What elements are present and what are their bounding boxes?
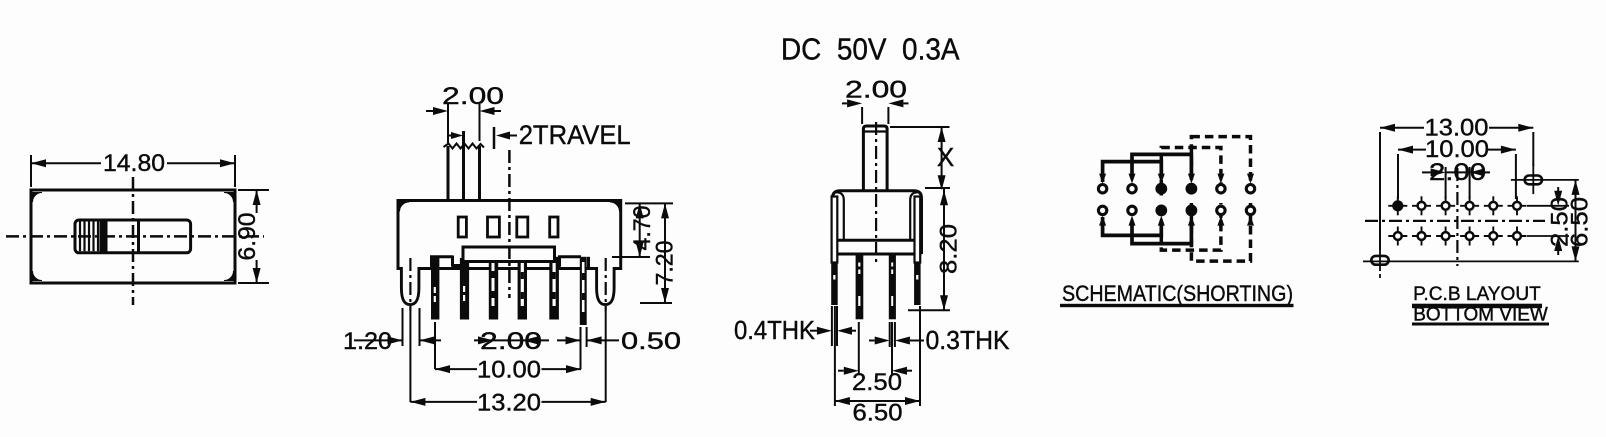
svg-text:2TRAVEL: 2TRAVEL [519, 120, 631, 150]
dimension 4.70 line and arrows [639, 203, 641, 257]
view3 pin outer-right [914, 262, 921, 305]
view2 pin 1 [431, 257, 439, 320]
svg-text:0.3THK: 0.3THK [926, 327, 1010, 355]
schematic pin circle bottom row col6 [1246, 206, 1254, 214]
pcb slot hole bottom-left [1371, 256, 1388, 265]
schematic pin circle bottom row col1 [1098, 206, 1106, 214]
view2 contact window 1 [458, 217, 466, 237]
view2 mounting post left [401, 267, 419, 305]
schematic pin circle top row col1 [1098, 185, 1106, 193]
dimension 2.00 pcb extension lines [1445, 167, 1447, 199]
view2 body outline [398, 201, 621, 269]
dimension 0.3THK arrows [869, 340, 875, 342]
pcb pad row2 col4 [1460, 235, 1479, 237]
view3 vertical centerline [875, 122, 877, 262]
view2 contact window 3 [517, 217, 528, 237]
pcb caption underline2 [1412, 323, 1549, 326]
schematic pin circle bottom row col2 [1128, 206, 1136, 214]
dimension 2.50 side arrows [838, 370, 844, 372]
view2 pin 5 [549, 257, 559, 320]
view3 metal tab right upper [915, 197, 921, 263]
pcb bottom extension line long [1363, 260, 1579, 262]
view2 slider base plate [463, 247, 555, 262]
svg-text:2.00: 2.00 [480, 328, 542, 355]
dimension 0.4THK arrows [810, 330, 817, 332]
svg-text:0.4THK: 0.4THK [734, 317, 815, 345]
view1 corner mark top-left [33, 193, 43, 203]
pcb pad row2 col5 [1484, 235, 1503, 237]
svg-text:8.20: 8.20 [936, 224, 963, 274]
view2 mounting post right [597, 267, 615, 305]
view3 knob cap line [863, 130, 887, 132]
view2 pin1 extension line [434, 322, 436, 369]
dimension 2.50 pcb arrows [1557, 187, 1559, 191]
view1 corner mark top-right [224, 193, 234, 203]
dimension 10.00 pcb line and arrows [1398, 149, 1426, 151]
schematic wire bottom staple pins1-3 [1103, 217, 1162, 235]
svg-text:SCHEMATIC(SHORTING): SCHEMATIC(SHORTING) [1062, 281, 1293, 306]
dimension 8.20 line and arrows [943, 188, 945, 310]
pcb slot hole top-right [1525, 176, 1542, 185]
pcb pad row2 col6 [1508, 235, 1527, 237]
pcb vertical centerline [1456, 168, 1458, 266]
view2 vertical centerline [508, 150, 511, 298]
dimension 2.50 side extension lines [858, 322, 860, 375]
view3 pin inner-right [889, 254, 896, 319]
pcb pad row1 col5 [1484, 205, 1503, 207]
dimension 2.00 knob extension lines [447, 104, 449, 143]
view2 pin 3 [489, 258, 498, 320]
dimension 6.90 line and arrows [256, 190, 258, 213]
view2 pin 2 [460, 258, 469, 320]
dimension 2.00 side extension lines [861, 107, 863, 124]
pcb pad row2 col2 [1412, 235, 1431, 237]
view3 body seam line lower [833, 253, 922, 256]
svg-text:P.C.B LAYOUT: P.C.B LAYOUT [1413, 283, 1541, 305]
pcb row extension lines right [1527, 205, 1569, 207]
svg-text:6.50: 6.50 [853, 400, 903, 427]
svg-text:2.00: 2.00 [442, 83, 504, 110]
pcb pad row2 col3 [1436, 235, 1455, 237]
view2 right post centerline [605, 258, 607, 311]
view2 knob shaft lines [447, 146, 450, 201]
view1 knob black band [100, 221, 108, 252]
schematic arrowheads dashed columns 5-6 [1217, 174, 1224, 184]
schematic pin circle top row col3 [1155, 183, 1167, 195]
svg-text:6.90: 6.90 [234, 213, 261, 261]
dimension 4.70 bottom extension line [612, 256, 650, 258]
view2 corner mark top-right [610, 202, 620, 212]
view2 left post centerline [409, 258, 411, 311]
view2 bottom contour steps [398, 267, 432, 270]
schematic pin circle top row col4 [1186, 183, 1198, 195]
schematic gap erase between rows [1159, 196, 1164, 204]
dimension 6.50 side extension lines [834, 306, 836, 406]
dimension 1.20 arrows [388, 336, 403, 344]
pcb caption underline thick [1412, 304, 1542, 309]
pcb pad row1 col6 [1508, 205, 1527, 207]
dimension 14.80 line and arrows [31, 162, 101, 164]
schematic dashed slider frame A cols3-5 [1161, 148, 1221, 251]
view2 pin 6 thin [580, 257, 587, 325]
pcb pad row1 col4 [1460, 205, 1479, 207]
pcb horizontal centerline [1365, 220, 1545, 222]
view3 pin outer-left [831, 262, 838, 305]
svg-text:2.00: 2.00 [1429, 159, 1486, 186]
dimension X top extension line [890, 126, 950, 128]
travel reference mark [493, 127, 496, 149]
svg-text:10.00: 10.00 [477, 357, 541, 384]
svg-text:13.20: 13.20 [477, 390, 541, 417]
svg-text:6.50: 6.50 [1567, 197, 1594, 247]
dimension 8.20 bottom extension line [908, 309, 950, 311]
dimension 1.20 extension lines [402, 308, 404, 346]
dimension 2.00 pitch arrows [478, 336, 493, 344]
dimension 6.50 side line and arrows [835, 400, 920, 402]
pcb pad row1 col3 [1436, 205, 1455, 207]
dimension 7.20 bottom extension line [640, 302, 672, 304]
schematic pin circle top row col2 [1128, 185, 1136, 193]
view1 corner mark bottom-left [33, 271, 43, 281]
view3 knob outline [863, 126, 887, 191]
svg-text:2.50: 2.50 [852, 369, 902, 396]
svg-text:7.20: 7.20 [652, 241, 679, 286]
view1 slider knob outline [75, 220, 191, 253]
dimension 2.00 side line and arrows [842, 102, 847, 104]
view2 pin6 extension lines [580, 327, 582, 369]
schematic wire top staple pins1-3 [1103, 162, 1162, 182]
svg-text:2.00: 2.00 [845, 77, 907, 104]
dimension 0.3THK extension lines [889, 322, 891, 347]
view2 corner mark top-left [400, 202, 410, 212]
svg-text:X: X [937, 142, 954, 172]
schematic pin circle bottom row col3 [1155, 205, 1167, 217]
svg-text:0.50: 0.50 [621, 328, 681, 355]
view3 inner wall ear right [910, 192, 918, 240]
pcb pad row2 col1 [1388, 235, 1407, 237]
pcb pad row1 col1 [1388, 205, 1407, 207]
schematic wire bottom staple pins2-4 [1132, 224, 1191, 244]
view1 vertical centerline [132, 177, 135, 305]
schematic pin circle top row col5 [1217, 185, 1225, 193]
dimension 4.70 and 7.20 top extension line [625, 202, 673, 204]
dimension 2.00 pcb line and arrows [1422, 171, 1431, 173]
view1 body outline [31, 190, 235, 283]
schematic dashed slider frame B cols4-6 [1191, 137, 1250, 262]
view3 body outline [833, 191, 922, 254]
dimension 7.20 line and arrows [664, 203, 666, 303]
dimension 0.50 arrows [566, 336, 581, 344]
dimension 13.00 line and arrows [1380, 127, 1424, 129]
view3 pin inner-left [856, 254, 864, 319]
dimension 6.50 pcb line and arrows [1575, 180, 1577, 262]
dimension 2.00 knob line and arrows [426, 110, 433, 112]
view1 corner mark bottom-right [224, 271, 234, 281]
dimension 13.20 line and arrows [410, 401, 477, 403]
bottom dimension row line segments [354, 339, 403, 341]
view1 horizontal centerline [6, 235, 264, 238]
view2 knob break squiggle [444, 144, 485, 149]
pcb pad row1 col2 [1412, 205, 1431, 207]
dimension 8.20 top extension line [925, 187, 950, 189]
view2 contact window 2 [488, 217, 500, 237]
svg-text:DC 50V 0.3A: DC 50V 0.3A [781, 33, 960, 67]
view1 knob divider line [137, 220, 140, 253]
svg-text:BOTTOM VIEW: BOTTOM VIEW [1413, 303, 1548, 325]
2TRAVEL leader arrow [496, 132, 510, 140]
schematic pin circle top row col6 [1246, 185, 1254, 193]
dimension X line and arrows [941, 127, 943, 188]
svg-text:14.80: 14.80 [103, 150, 165, 177]
view1 knob grip serrations [79, 222, 81, 252]
dimension 14.80 extension lines [30, 155, 32, 187]
view3 inner wall ear left [836, 192, 844, 240]
view3 metal tab left upper [832, 197, 838, 263]
schematic wire top staple pins2-4 [1132, 154, 1191, 175]
svg-text:1.20: 1.20 [343, 328, 392, 355]
dimension 13.00 extension lines [1379, 132, 1381, 250]
schematic caption underline [1060, 304, 1294, 307]
view2 pin 4 [518, 258, 527, 320]
travel mark arrow inside knob [448, 135, 452, 137]
view3 body seam line upper [837, 239, 917, 242]
dimension 0.4THK extension lines [831, 306, 833, 346]
dimension 6.90 extension lines [238, 189, 269, 191]
view2 contact window 4 [550, 217, 558, 237]
schematic pin circle bottom row col5 [1217, 206, 1225, 214]
dimension 10.00 line and arrows [435, 368, 477, 370]
dimension 10.00 pcb extension lines [1397, 154, 1399, 199]
schematic pin circle bottom row col4 [1186, 205, 1198, 217]
